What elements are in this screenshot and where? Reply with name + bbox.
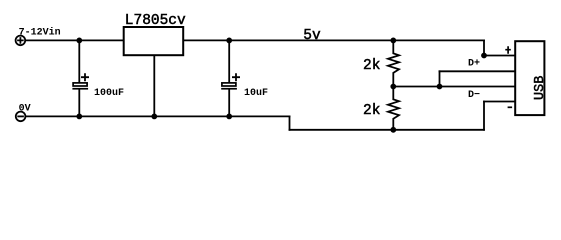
svg-text:0V: 0V — [19, 103, 31, 114]
wire: regulator ground pin — [153, 55, 155, 116]
node: R1 top junction — [390, 38, 396, 44]
wire: 10uF bottom lead — [228, 90, 230, 117]
svg-text:7-12Vin: 7-12Vin — [19, 27, 61, 39]
svg-text:D−: D− — [468, 90, 480, 101]
wire: ground rail up to USB - pin — [483, 102, 485, 130]
regulator U1 L7805cv — [124, 27, 184, 55]
svg-text:10uF: 10uF — [244, 88, 268, 99]
wire: + pin into USB — [484, 55, 516, 57]
resistor R1 2k — [388, 40, 399, 86]
svg-text:2k: 2k — [363, 58, 380, 74]
resistor R2 2k — [388, 87, 399, 130]
node: divider midpoint — [390, 84, 396, 90]
node: 10uF bottom junction — [226, 114, 232, 120]
wire: divider mid to D- pin — [393, 86, 515, 88]
node: R2 bottom junction — [390, 127, 396, 133]
node: USB + pin corner — [481, 53, 487, 59]
node: 10uF top junction — [226, 38, 232, 44]
node: 100uF top junction — [76, 38, 82, 44]
node: regulator gnd junction — [151, 114, 157, 120]
wire: - pin into USB — [484, 101, 516, 103]
wire: bottom rail step down — [289, 116, 291, 129]
input terminal VIN — [16, 36, 26, 46]
wire: D+ pin into USB — [440, 70, 516, 72]
wire: 100uF bottom lead — [78, 90, 80, 117]
svg-text:USB: USB — [533, 76, 548, 100]
wire: regulator output 5V rail — [183, 39, 484, 41]
svg-text:5v: 5v — [303, 28, 321, 44]
USB connector J1 — [515, 41, 544, 115]
wire: 5V rail drop to USB + pin — [483, 40, 485, 55]
svg-text:2k: 2k — [363, 103, 380, 119]
node: 100uF bottom junction — [76, 114, 82, 120]
wire: D+ branch vertical — [439, 71, 441, 86]
capacitor C2 10uF — [221, 73, 240, 89]
terminal 0V — [16, 112, 26, 122]
pin label - (GND) — [508, 106, 512, 108]
wire: 0V bottom rail — [26, 115, 289, 117]
node: D+/D- tie point — [437, 84, 443, 90]
pin label + (VBUS) — [505, 46, 511, 54]
wire: lower ground rail — [290, 129, 485, 131]
svg-text:L7805cv: L7805cv — [125, 13, 186, 29]
wire: VIN terminal to regulator input — [26, 39, 124, 41]
capacitor C1 100uF — [72, 73, 89, 89]
wire: 10uF top lead — [228, 40, 230, 83]
wire: 100uF top lead — [78, 40, 80, 83]
svg-text:100uF: 100uF — [94, 88, 124, 99]
svg-text:D+: D+ — [468, 59, 480, 70]
